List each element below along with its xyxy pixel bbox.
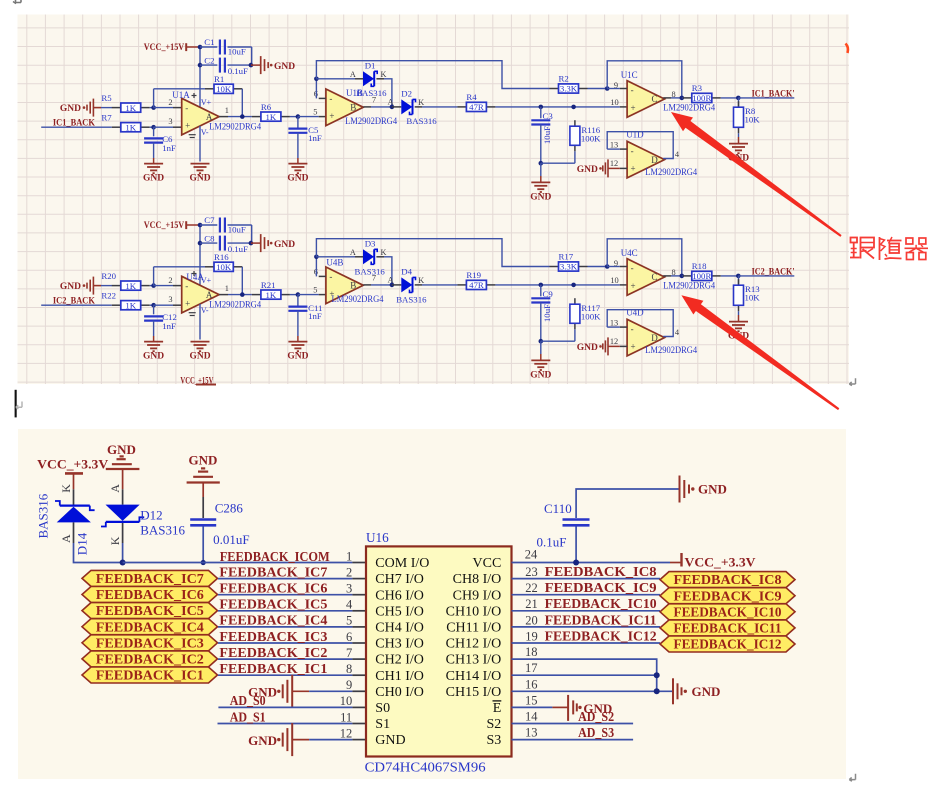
svg-text:GND: GND: [698, 482, 727, 497]
diode D3 BAS316: [316, 239, 392, 285]
power ground at U4D pin12: [577, 337, 620, 355]
svg-text:100R: 100R: [692, 93, 711, 103]
svg-text:3.3K: 3.3K: [560, 262, 578, 272]
svg-text:BAS316: BAS316: [396, 294, 427, 304]
diode D2 BAS316: [388, 89, 458, 126]
red annotation arrow 2: [681, 295, 839, 410]
resistor R4 47R: [457, 92, 495, 112]
svg-text:B: B: [350, 103, 356, 113]
svg-text:CH7 I/O: CH7 I/O: [375, 572, 424, 587]
svg-text:A: A: [388, 97, 394, 106]
svg-text:1nF: 1nF: [308, 133, 322, 143]
wire R2 to pin9 junction: [588, 86, 610, 91]
wire cap join: [249, 225, 254, 245]
svg-text:LM2902DRG4: LM2902DRG4: [663, 281, 715, 291]
wire pin 10 AD_S0: [218, 693, 366, 708]
svg-text:4: 4: [346, 598, 353, 612]
svg-text:V-: V-: [201, 128, 209, 137]
svg-text:GND: GND: [577, 343, 598, 353]
svg-text:9: 9: [614, 259, 618, 268]
wire op-amp U4B output pin 7: [363, 274, 394, 288]
diode D12 BAS316: [101, 484, 185, 566]
svg-text:1: 1: [225, 284, 229, 293]
svg-text:1K: 1K: [125, 300, 136, 310]
svg-text:K: K: [380, 70, 386, 79]
svg-text:10: 10: [610, 98, 618, 107]
svg-text:BAS316: BAS316: [36, 493, 51, 538]
power ground input GND: [60, 277, 112, 295]
svg-text:R16: R16: [214, 252, 229, 262]
svg-text:GND: GND: [577, 165, 598, 175]
svg-text:0.1uF: 0.1uF: [537, 535, 567, 550]
wire pin 22 with net label FEEDBACK_IC9: [512, 580, 661, 595]
svg-text:A: A: [350, 70, 356, 79]
svg-text:CH3 I/O: CH3 I/O: [375, 637, 424, 652]
net label IC2_BACK: [41, 296, 112, 306]
svg-text:13: 13: [525, 726, 538, 740]
port FEEDBACK_IC12 (hexagon): [660, 636, 795, 652]
svg-text:10: 10: [610, 276, 618, 285]
wire op-amp output pin 1: [219, 106, 252, 119]
svg-text:FEEDBACK_IC3: FEEDBACK_IC3: [96, 635, 204, 650]
svg-text:GND: GND: [287, 174, 308, 184]
port FEEDBACK_IC6 (hexagon): [82, 587, 218, 603]
svg-text:IC2_BACK: IC2_BACK: [53, 296, 95, 306]
svg-text:R21: R21: [261, 280, 276, 290]
svg-text:C9: C9: [543, 289, 554, 299]
ground above D12: [106, 442, 140, 489]
svg-text:R19: R19: [466, 270, 481, 280]
capacitor C3 10uF: [531, 107, 553, 166]
svg-text:B: B: [350, 281, 356, 291]
resistor R5 1K: [101, 93, 149, 113]
svg-text:R22: R22: [101, 290, 116, 300]
svg-text:FEEDBACK_IC4: FEEDBACK_IC4: [96, 619, 204, 634]
svg-text:10: 10: [340, 694, 353, 708]
ground under C6: [143, 164, 164, 184]
svg-text:GND: GND: [189, 352, 210, 362]
svg-text:FEEDBACK_IC12: FEEDBACK_IC12: [674, 637, 782, 652]
ground under R13: [728, 322, 749, 342]
svg-text:6: 6: [346, 630, 352, 644]
svg-text:10K: 10K: [745, 115, 761, 125]
svg-text:13: 13: [610, 319, 618, 328]
port FEEDBACK_IC8 (hexagon): [660, 572, 795, 588]
svg-text:R2: R2: [559, 74, 569, 84]
svg-text:10uF: 10uF: [542, 304, 552, 322]
op-amp U4D: [610, 308, 698, 356]
op-amp U1A: [172, 90, 261, 162]
wire COM rail to pin 1: [123, 549, 366, 564]
op-amp U1B: [326, 88, 398, 126]
power ground right of pin 16: [673, 678, 720, 704]
svg-text:GND: GND: [143, 174, 164, 184]
wire to pin2, junction: [150, 267, 182, 288]
svg-text:VCC_+15V: VCC_+15V: [144, 42, 185, 52]
svg-text:R6: R6: [261, 102, 272, 112]
wire op-amp U1B output pin 7: [363, 96, 394, 110]
svg-text:0.1uF: 0.1uF: [228, 66, 248, 76]
wire pin 19 with net label FEEDBACK_IC12: [512, 628, 661, 643]
svg-text:C3: C3: [543, 111, 554, 121]
svg-text:GND: GND: [60, 104, 81, 114]
svg-text:GND: GND: [60, 282, 81, 292]
wire pin 13 AD_S3: [512, 725, 634, 740]
resistor R3 100R: [682, 83, 741, 103]
svg-text:1K: 1K: [125, 281, 136, 291]
svg-text:1K: 1K: [125, 122, 136, 132]
svg-text:-: -: [631, 85, 634, 95]
svg-text:D12: D12: [140, 507, 162, 522]
capacitor C2 0.1uF: [200, 55, 251, 76]
resistor R8 10K to ground: [734, 98, 761, 144]
svg-text:FEEDBACK_IC5: FEEDBACK_IC5: [219, 597, 327, 612]
svg-text:CH0 I/O: CH0 I/O: [375, 685, 424, 700]
svg-text:R7: R7: [101, 112, 112, 122]
resistor R22 1K: [101, 290, 149, 310]
net label IC2_BACK': [738, 267, 794, 277]
svg-text:21: 21: [525, 597, 538, 611]
resistor R1 10K feedback: [154, 74, 243, 117]
svg-text:FEEDBACK_IC10: FEEDBACK_IC10: [674, 604, 782, 619]
wire pin 12: [309, 726, 366, 740]
op-amp U4C follower: [607, 248, 715, 295]
svg-text:CH9 I/O: CH9 I/O: [453, 588, 502, 603]
port FEEDBACK_IC2 (hexagon): [82, 651, 218, 667]
svg-text:FEEDBACK_IC6: FEEDBACK_IC6: [219, 581, 327, 596]
svg-text:FEEDBACK_IC9: FEEDBACK_IC9: [674, 588, 782, 603]
svg-text:+: +: [631, 341, 636, 351]
capacitor C12 1nF: [144, 305, 177, 341]
wire pin 14 AD_S2: [512, 709, 634, 724]
svg-text:20: 20: [525, 613, 538, 627]
ground above C286: [187, 453, 220, 498]
svg-text:-: -: [631, 324, 634, 334]
svg-text:BAS316: BAS316: [406, 116, 437, 126]
resistor R2 3.3K: [550, 74, 588, 94]
port FEEDBACK_IC1 (hexagon): [82, 667, 218, 683]
svg-text:S1: S1: [375, 717, 390, 732]
svg-text:BAS316: BAS316: [355, 266, 386, 276]
svg-text:CH12 I/O: CH12 I/O: [446, 637, 502, 652]
svg-text:-: -: [329, 94, 332, 104]
svg-text:10K: 10K: [216, 262, 232, 272]
port FEEDBACK_IC3 (hexagon): [82, 635, 218, 651]
svg-text:K: K: [418, 98, 424, 107]
svg-text:3: 3: [168, 117, 172, 126]
resistor R117 100K: [541, 298, 601, 341]
port FEEDBACK_IC11 (hexagon): [660, 620, 795, 636]
port FEEDBACK_IC5 (hexagon): [82, 603, 218, 619]
svg-text:GND: GND: [530, 370, 551, 380]
svg-text:AD_S0: AD_S0: [230, 693, 266, 708]
svg-text:0.01uF: 0.01uF: [213, 532, 249, 547]
wire to junction C5: [290, 286, 326, 297]
svg-text:24: 24: [525, 548, 538, 562]
svg-text:LM2902DRG4: LM2902DRG4: [209, 300, 261, 310]
svg-text:LM2902DRG4: LM2902DRG4: [332, 294, 384, 304]
svg-text:3.3K: 3.3K: [560, 84, 578, 94]
svg-text:23: 23: [525, 565, 538, 579]
svg-text:16: 16: [525, 677, 538, 691]
svg-text:D4: D4: [401, 267, 412, 277]
svg-text:GND: GND: [189, 453, 218, 468]
ground under C9: [530, 341, 551, 380]
svg-text:18: 18: [525, 645, 538, 659]
svg-text:8: 8: [672, 90, 676, 99]
svg-text:IC1_BACK: IC1_BACK: [53, 118, 95, 128]
svg-text:A: A: [388, 275, 394, 284]
svg-text:VCC_+15V: VCC_+15V: [144, 220, 185, 230]
wire to op-amp U4C pin10: [495, 276, 627, 287]
power port VCC_+3.3V left: [37, 457, 109, 490]
svg-text:K: K: [108, 536, 122, 545]
svg-text:FEEDBACK_ICOM: FEEDBACK_ICOM: [220, 549, 331, 564]
resistor R7 1K: [101, 112, 149, 132]
capacitor C8 0.1uF: [200, 233, 251, 254]
svg-text:14: 14: [525, 710, 538, 724]
svg-text:D3: D3: [365, 239, 376, 249]
wire U1D feedback: [607, 132, 680, 159]
svg-text:FEEDBACK_IC11: FEEDBACK_IC11: [545, 612, 657, 627]
svg-text:CH1 I/O: CH1 I/O: [375, 669, 424, 684]
wire pin 6 with net label FEEDBACK_IC3: [218, 629, 366, 644]
svg-text:15: 15: [525, 693, 538, 707]
svg-text:GND: GND: [530, 192, 551, 202]
svg-text:U1C: U1C: [621, 70, 638, 80]
svg-text:7: 7: [372, 274, 376, 283]
resistor R20 1K: [101, 271, 149, 291]
svg-text:7: 7: [372, 96, 376, 105]
port FEEDBACK_IC4 (hexagon): [82, 619, 218, 635]
svg-text:47R: 47R: [469, 280, 484, 290]
wire pin 20 with net label FEEDBACK_IC11: [512, 612, 661, 627]
svg-text:U4C: U4C: [621, 248, 638, 258]
svg-text:LM2902DRG4: LM2902DRG4: [209, 122, 261, 132]
wire pin 5 with net label FEEDBACK_IC4: [218, 613, 366, 628]
wire to junction C5: [290, 108, 326, 119]
svg-text:GND: GND: [375, 733, 405, 748]
diode D14 BAS316: [36, 484, 123, 563]
resistor R6 1K: [252, 102, 290, 122]
svg-text:LM2902DRG4: LM2902DRG4: [345, 116, 397, 126]
svg-text:FEEDBACK_IC1: FEEDBACK_IC1: [219, 661, 327, 676]
svg-text:2: 2: [168, 276, 172, 285]
resistor R19 47R: [457, 270, 495, 290]
svg-text:13: 13: [610, 141, 618, 150]
svg-text:CH10 I/O: CH10 I/O: [446, 604, 502, 619]
svg-text:GND: GND: [274, 240, 295, 250]
svg-text:0.1uF: 0.1uF: [228, 244, 248, 254]
svg-text:R5: R5: [101, 93, 112, 103]
resistor R13 10K to ground: [734, 276, 761, 322]
svg-text:CH2 I/O: CH2 I/O: [375, 653, 424, 668]
op-amp U4A: [182, 271, 262, 340]
svg-text:IC2_BACK': IC2_BACK': [752, 267, 795, 277]
svg-text:5: 5: [313, 108, 317, 117]
diode D1 BAS316: [316, 61, 392, 107]
svg-text:VCC_+3.3V: VCC_+3.3V: [685, 555, 757, 570]
svg-text:A: A: [350, 248, 356, 257]
wire VCC rail vertical: [198, 223, 203, 285]
wire pin 8 with net label FEEDBACK_IC1: [218, 661, 366, 676]
capacitor C5 1nF: [288, 117, 321, 164]
svg-text:D1: D1: [365, 61, 376, 71]
power ground right of caps: [251, 56, 295, 74]
wire pins 18 17 16 tied to ground: [512, 645, 673, 694]
svg-text:AD_S1: AD_S1: [230, 709, 266, 724]
svg-text:COM I/O: COM I/O: [375, 556, 429, 571]
svg-text:C: C: [651, 94, 657, 104]
net label IC1_BACK: [41, 118, 112, 128]
schematic sheet 1 background with grid: [18, 15, 850, 385]
red annotation arrow 1: [671, 112, 842, 237]
svg-text:A: A: [206, 112, 213, 122]
power port VCC_+15V bottom: [180, 376, 216, 386]
op-amp U4B: [326, 258, 384, 304]
svg-text:10uF: 10uF: [542, 126, 552, 144]
schematic sheet 2 background: [18, 429, 846, 779]
wire to pin2, junction: [150, 89, 182, 110]
svg-text:100R: 100R: [692, 271, 711, 281]
svg-text:12: 12: [610, 159, 618, 168]
svg-text:1: 1: [346, 549, 352, 563]
svg-text:3: 3: [168, 295, 172, 304]
capacitor C1 10uF: [200, 37, 252, 57]
svg-text:1K: 1K: [266, 112, 277, 122]
svg-text:D14: D14: [75, 532, 90, 555]
svg-text:FEEDBACK_IC7: FEEDBACK_IC7: [219, 564, 327, 579]
svg-text:FEEDBACK_IC9: FEEDBACK_IC9: [545, 580, 657, 595]
svg-text:12: 12: [340, 726, 353, 740]
svg-text:GND: GND: [189, 174, 210, 184]
wire cap join: [249, 47, 254, 67]
small red tick top right: [846, 44, 848, 54]
power ground input GND: [60, 99, 112, 117]
svg-text:AD_S2: AD_S2: [578, 709, 614, 724]
svg-text:FEEDBACK_IC7: FEEDBACK_IC7: [96, 571, 204, 586]
wire pin 23 with net label FEEDBACK_IC8: [512, 564, 661, 579]
net label IC1_BACK': [738, 89, 794, 99]
wire follower feedback loop: [607, 239, 682, 276]
svg-text:FEEDBACK_IC2: FEEDBACK_IC2: [219, 645, 327, 660]
svg-text:U1A: U1A: [172, 90, 190, 100]
port FEEDBACK_IC7 (hexagon): [82, 570, 218, 586]
svg-text:GND: GND: [143, 352, 164, 362]
resistor R18 100R: [682, 261, 741, 281]
wire pin 24 VCC rail: [512, 548, 682, 566]
svg-text:D2: D2: [401, 89, 412, 99]
svg-text:S0: S0: [375, 701, 390, 716]
svg-text:R4: R4: [466, 92, 477, 102]
svg-text:D: D: [651, 155, 658, 165]
svg-text:11: 11: [340, 710, 352, 724]
red text gen-sui-qi (follower) hand-drawn glyphs: [850, 237, 928, 260]
power port VCC_+15V row2: [144, 220, 200, 230]
svg-text:V-: V-: [201, 306, 209, 315]
wire to pin3, junction: [150, 117, 182, 130]
svg-text:C110: C110: [544, 501, 572, 516]
svg-text:FEEDBACK_IC11: FEEDBACK_IC11: [674, 621, 782, 636]
wire follower feedback loop: [607, 61, 682, 98]
wire to pin3, junction: [150, 295, 182, 308]
port FEEDBACK_IC10 (hexagon): [660, 604, 795, 620]
svg-text:17: 17: [525, 661, 538, 675]
svg-text:LM2902DRG4: LM2902DRG4: [645, 167, 697, 177]
ground under C12: [143, 342, 164, 362]
IC U16 CD74HC4067SM96: [365, 530, 512, 775]
svg-text:-: -: [185, 281, 188, 291]
resistor R116 100K: [541, 120, 601, 163]
wire pin 2 with net label FEEDBACK_IC7: [218, 564, 366, 579]
svg-text:+: +: [631, 163, 636, 173]
svg-text:CH4 I/O: CH4 I/O: [375, 621, 424, 636]
svg-text:10uF: 10uF: [228, 47, 246, 57]
svg-text:U16: U16: [366, 530, 389, 545]
svg-text:CH6 I/O: CH6 I/O: [375, 588, 424, 603]
capacitor C110 0.1uF: [537, 489, 680, 563]
svg-text:-: -: [631, 263, 634, 273]
wire pin 3 with net label FEEDBACK_IC6: [218, 581, 366, 596]
svg-text:R18: R18: [692, 261, 707, 271]
svg-text:C8: C8: [204, 233, 215, 243]
wire pin 15 enable to ground: [512, 693, 613, 721]
svg-text:U4B: U4B: [326, 258, 343, 268]
svg-text:A: A: [59, 534, 73, 543]
wire pin 7 with net label FEEDBACK_IC2: [218, 645, 366, 660]
svg-text:22: 22: [525, 581, 538, 595]
svg-text:V+: V+: [201, 98, 212, 107]
svg-text:CH15 I/O: CH15 I/O: [446, 685, 502, 700]
svg-text:K: K: [380, 248, 386, 257]
svg-text:IC1_BACK': IC1_BACK': [752, 89, 795, 99]
op-amp U1C follower: [607, 70, 715, 117]
svg-text:S3: S3: [487, 733, 502, 748]
wire pin 21 with net label FEEDBACK_IC10: [512, 596, 661, 611]
svg-text:VCC_+3.3V: VCC_+3.3V: [37, 457, 109, 472]
svg-text:FEEDBACK_IC2: FEEDBACK_IC2: [96, 652, 204, 667]
resistor R21 1K: [252, 280, 290, 300]
svg-text:CD74HC4067SM96: CD74HC4067SM96: [365, 759, 486, 774]
svg-text:A: A: [108, 484, 122, 493]
power ground right of caps: [251, 234, 295, 252]
svg-text:FEEDBACK_IC5: FEEDBACK_IC5: [96, 603, 204, 618]
svg-text:K: K: [59, 484, 73, 493]
capacitor C9 10uF: [531, 285, 553, 344]
wire R17 to pin9 junction: [588, 264, 610, 269]
capacitor C286 0.01uF: [190, 497, 249, 565]
ground under C3: [530, 163, 551, 202]
svg-text:19: 19: [525, 629, 538, 643]
wire pin 4 with net label FEEDBACK_IC5: [218, 597, 366, 612]
svg-text:S2: S2: [487, 717, 502, 732]
op-amp U1D: [610, 130, 698, 178]
svg-text:5: 5: [313, 286, 317, 295]
wire op-amp output pin 1: [219, 284, 252, 297]
power ground right of C110: [680, 476, 727, 503]
svg-text:R1: R1: [214, 74, 224, 84]
svg-text:3: 3: [346, 582, 352, 596]
svg-text:1: 1: [225, 106, 229, 115]
svg-text:R3: R3: [692, 83, 703, 93]
svg-text:8: 8: [672, 268, 676, 277]
svg-text:1nF: 1nF: [162, 143, 176, 153]
svg-text:R20: R20: [101, 271, 116, 281]
svg-text:100K: 100K: [581, 134, 601, 144]
svg-text:FEEDBACK_IC8: FEEDBACK_IC8: [674, 572, 782, 587]
svg-text:1K: 1K: [266, 290, 277, 300]
svg-text:GND: GND: [274, 62, 295, 72]
